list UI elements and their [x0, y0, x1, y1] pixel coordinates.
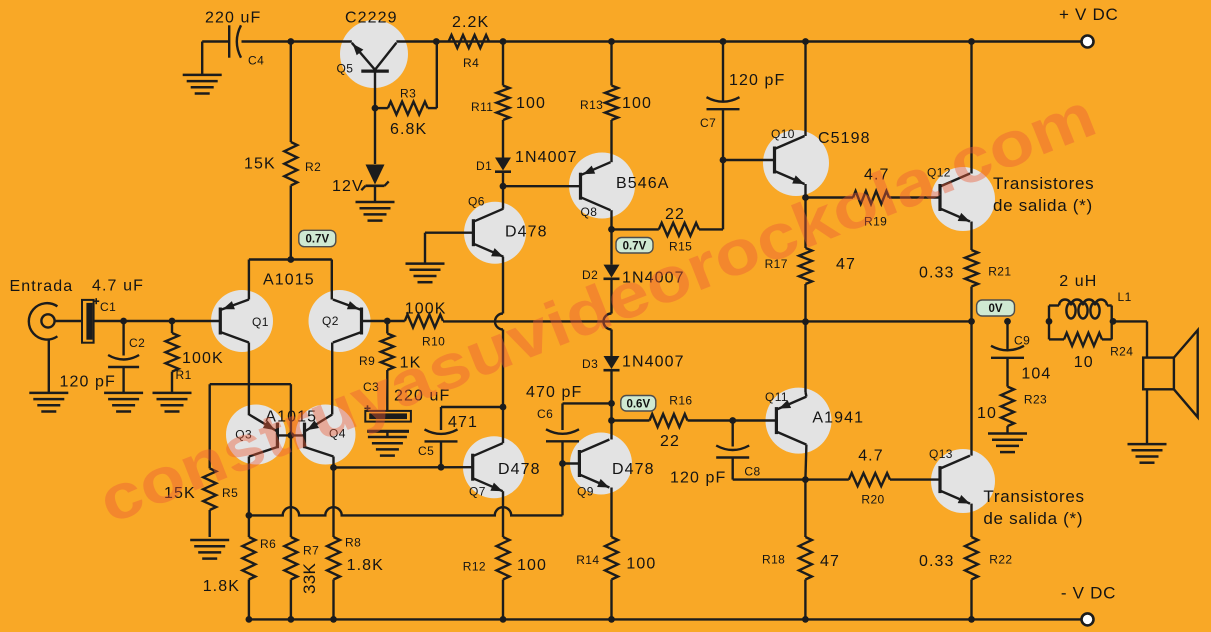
svg-text:Entrada: Entrada	[10, 278, 74, 295]
svg-text:15K: 15K	[244, 156, 276, 173]
svg-text:R18: R18	[762, 553, 785, 567]
svg-text:R22: R22	[989, 553, 1012, 567]
svg-text:D478: D478	[612, 461, 655, 478]
svg-text:33K: 33K	[300, 562, 319, 594]
svg-text:4.7 uF: 4.7 uF	[92, 278, 144, 295]
svg-text:R3: R3	[400, 87, 416, 101]
svg-text:0.7V: 0.7V	[623, 240, 647, 252]
svg-text:A1015: A1015	[263, 272, 315, 289]
svg-text:120 pF: 120 pF	[60, 374, 116, 391]
svg-text:C4: C4	[248, 54, 264, 68]
svg-text:C8: C8	[744, 465, 760, 479]
svg-text:de salida (*): de salida (*)	[983, 509, 1083, 528]
svg-text:D478: D478	[498, 461, 541, 478]
svg-text:Q9: Q9	[577, 485, 594, 499]
svg-text:0.7V: 0.7V	[305, 234, 329, 246]
svg-text:0.33: 0.33	[919, 265, 955, 282]
svg-text:22: 22	[660, 433, 680, 450]
svg-text:100: 100	[622, 95, 652, 112]
svg-text:Transistores: Transistores	[983, 487, 1084, 506]
svg-text:R4: R4	[463, 56, 479, 70]
svg-text:6.8K: 6.8K	[390, 121, 427, 138]
svg-text:1.8K: 1.8K	[347, 557, 384, 574]
svg-text:- V DC: - V DC	[1061, 584, 1116, 603]
svg-text:Q6: Q6	[468, 195, 485, 209]
svg-text:R13: R13	[580, 98, 603, 112]
svg-text:R2: R2	[305, 160, 321, 174]
svg-text:A1941: A1941	[812, 410, 864, 427]
svg-text:2 uH: 2 uH	[1059, 273, 1097, 290]
svg-text:1N4007: 1N4007	[515, 149, 578, 166]
svg-text:100K: 100K	[405, 301, 447, 318]
svg-text:Q7: Q7	[469, 485, 486, 499]
svg-text:B546A: B546A	[616, 175, 670, 192]
svg-text:C9: C9	[1014, 334, 1030, 348]
svg-text:100: 100	[516, 95, 546, 112]
svg-text:Q10: Q10	[771, 127, 795, 141]
svg-text:C1: C1	[100, 300, 116, 314]
svg-text:120 pF: 120 pF	[729, 72, 785, 89]
svg-text:C2229: C2229	[345, 10, 398, 27]
svg-text:R12: R12	[463, 560, 486, 574]
svg-text:D478: D478	[505, 224, 548, 241]
svg-text:0.33: 0.33	[919, 553, 955, 570]
svg-text:2.2K: 2.2K	[452, 14, 489, 31]
svg-text:0.6V: 0.6V	[626, 398, 650, 410]
svg-text:D3: D3	[582, 357, 598, 371]
svg-text:C6: C6	[537, 407, 553, 421]
svg-text:R8: R8	[345, 536, 361, 550]
svg-text:100: 100	[626, 556, 656, 573]
svg-text:C2: C2	[129, 336, 145, 350]
svg-text:0V: 0V	[989, 303, 1003, 315]
svg-text:471: 471	[448, 414, 478, 431]
svg-text:Q5: Q5	[337, 62, 354, 76]
svg-text:L1: L1	[1118, 290, 1132, 304]
svg-text:Q11: Q11	[765, 390, 788, 404]
svg-text:Q13: Q13	[929, 447, 953, 461]
svg-text:22: 22	[665, 206, 685, 223]
svg-text:10: 10	[977, 405, 997, 422]
svg-text:+ V DC: + V DC	[1059, 5, 1118, 24]
svg-text:R14: R14	[576, 553, 599, 567]
svg-text:de salida (*): de salida (*)	[993, 196, 1093, 215]
svg-text:4.7: 4.7	[858, 448, 884, 465]
svg-text:10: 10	[1074, 354, 1094, 371]
svg-text:47: 47	[836, 256, 856, 273]
svg-text:Q8: Q8	[581, 205, 598, 219]
svg-text:120 pF: 120 pF	[670, 470, 726, 487]
svg-text:47: 47	[820, 553, 840, 570]
svg-text:R1: R1	[176, 368, 192, 382]
svg-text:R11: R11	[471, 100, 493, 114]
svg-text:12V: 12V	[332, 178, 364, 195]
svg-text:R7: R7	[303, 544, 319, 558]
svg-text:Q1: Q1	[252, 315, 269, 329]
svg-text:1N4007: 1N4007	[622, 354, 685, 371]
svg-text:C5198: C5198	[818, 130, 871, 147]
svg-text:R21: R21	[988, 265, 1011, 279]
svg-text:104: 104	[1021, 366, 1051, 383]
svg-text:R16: R16	[669, 394, 692, 408]
svg-text:R20: R20	[861, 493, 884, 507]
svg-text:C7: C7	[700, 116, 716, 130]
svg-text:Q2: Q2	[322, 314, 339, 328]
svg-text:470 pF: 470 pF	[526, 384, 582, 401]
svg-text:1.8K: 1.8K	[203, 578, 240, 595]
svg-text:100: 100	[517, 557, 547, 574]
svg-text:100K: 100K	[182, 350, 224, 367]
svg-text:D1: D1	[476, 159, 492, 173]
svg-text:C5: C5	[418, 444, 434, 458]
svg-text:220 uF: 220 uF	[205, 10, 261, 27]
svg-text:R24: R24	[1110, 345, 1133, 359]
svg-text:R23: R23	[1024, 393, 1047, 407]
svg-text:R6: R6	[260, 537, 276, 551]
